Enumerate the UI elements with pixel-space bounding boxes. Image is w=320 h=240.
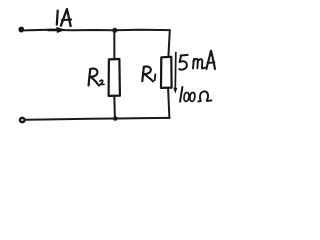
wire (top rail from left terminal to top-right corner) — [25, 29, 170, 32]
label 5mA — [179, 51, 215, 70]
junction (bottom node) — [113, 116, 118, 121]
wire (R1 bottom lead to bottom-right corner) — [168, 88, 169, 118]
wire (R2 top lead) — [113, 30, 115, 59]
current arrow 5mA (shaft) — [174, 53, 177, 89]
wire (R2 bottom lead) — [113, 96, 116, 118]
resistor R1 (box) — [161, 57, 172, 88]
label R2 — [89, 69, 104, 86]
current arrow 5mA (arrowhead) — [173, 88, 177, 94]
label 1A — [57, 9, 71, 26]
label 100 ohm (value of R1) — [180, 87, 211, 102]
current arrow 1A (shaft overdraw) — [49, 29, 58, 32]
terminal (bottom-left node) — [20, 118, 25, 122]
wire (bottom rail from left terminal to bottom-right corner) — [26, 118, 169, 120]
junction (top node, R2 tap) — [112, 28, 117, 33]
resistor R2 (box) — [109, 59, 120, 96]
terminal (top-left node) — [18, 27, 24, 33]
wire (top-right corner drop to R1) — [168, 30, 169, 57]
label R1 — [142, 66, 155, 81]
current arrow 1A (arrowhead) — [56, 27, 66, 33]
